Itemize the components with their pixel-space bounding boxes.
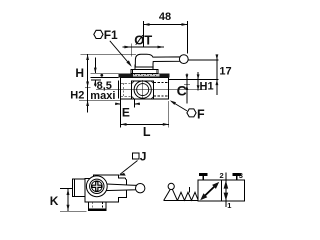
handle ball end [179, 55, 188, 64]
svg-text:3: 3 [239, 171, 243, 180]
svg-text:H2: H2 [70, 89, 84, 101]
node port vertical centerline [142, 80, 144, 99]
svg-text:ØT: ØT [134, 32, 152, 47]
lever actuator circle [168, 183, 174, 189]
dimension C line [186, 74, 188, 104]
blocked port T left box [202, 176, 204, 180]
dimension OT line [123, 46, 165, 48]
node C tick [184, 84, 190, 86]
wire extension OT [130, 44, 132, 57]
leader line J [120, 161, 138, 175]
right port thread dashed [154, 82, 169, 84]
svg-text:F: F [197, 107, 205, 121]
wire extension L right [168, 101, 170, 127]
handle hub and lever [135, 54, 181, 67]
node stub face inner line [74, 179, 76, 197]
dimension K [67, 189, 69, 212]
flow path diagonal arrow left box [203, 185, 217, 198]
node detent tick [188, 187, 190, 192]
dimension H H2 vertical [87, 54, 89, 112]
lever actuator legs [164, 189, 178, 200]
node actuator baseline [164, 199, 198, 201]
hexagon symbol F1 [94, 30, 103, 38]
dimension L [121, 123, 169, 125]
wire extension 48 left [143, 21, 145, 47]
node left port end dashed [122, 83, 124, 96]
dimension 8,5 arrow [94, 58, 96, 74]
svg-text:maxi: maxi [90, 90, 115, 102]
leader line F [172, 102, 188, 111]
dimension 17 reference bottom [169, 79, 219, 81]
node K bottom tick [60, 210, 87, 212]
svg-text:H: H [75, 66, 84, 80]
side lever bar [104, 184, 137, 191]
valve box right position [221, 180, 244, 201]
svg-text:J: J [140, 149, 147, 163]
port circle outer [134, 81, 151, 98]
svg-text:C: C [177, 82, 187, 98]
blocked port T right box port 3 [236, 176, 238, 180]
node face chamfer marks [132, 81, 154, 99]
side hub circles [86, 176, 107, 197]
dimension 17 line [216, 56, 218, 96]
svg-text:E: E [122, 105, 130, 119]
hexagon symbol F [187, 109, 196, 117]
port circle inner thread [137, 84, 149, 96]
dimension H1 line [197, 72, 199, 90]
dimension 17 reference top [188, 59, 218, 61]
valve box left position [198, 180, 222, 201]
node centerline side view [60, 188, 83, 190]
stem gland upper [135, 65, 153, 70]
spring return zigzag [178, 192, 198, 200]
dimension E [115, 103, 121, 105]
svg-text:1: 1 [227, 201, 231, 210]
wire handle-top reference line [80, 53, 136, 55]
wire extension E left L [120, 99, 122, 127]
side view body [85, 175, 127, 202]
square symbol J [133, 153, 139, 159]
node 8,5 tick [91, 79, 101, 81]
dimension 48 line [144, 24, 188, 26]
wire extension E right [134, 99, 136, 107]
leader line F1 [110, 41, 131, 65]
svg-text:L: L [143, 125, 151, 139]
node H2 tick [85, 86, 91, 88]
svg-text:2: 2 [220, 171, 224, 180]
phillips screw cross [92, 182, 102, 192]
side port stub left [72, 179, 85, 197]
knurled ring band [118, 73, 169, 77]
valve body front view [121, 77, 169, 99]
node centerline front view [96, 89, 207, 91]
wire body bottom left extension [79, 99, 121, 101]
bottom port stub [89, 202, 106, 210]
wire band lines left extension [90, 72, 118, 74]
svg-text:48: 48 [159, 11, 171, 23]
svg-text:K: K [50, 194, 59, 208]
svg-text:F1: F1 [104, 28, 118, 42]
wire extension 48 right [187, 21, 189, 54]
side lever ball [136, 184, 145, 193]
svg-text:H1: H1 [200, 81, 214, 93]
node band edge left [118, 81, 120, 99]
left port thread dashed [121, 82, 132, 84]
face square front port boss [132, 81, 154, 99]
flow path vertical arrow right box [225, 173, 227, 208]
stem flange lower [131, 69, 158, 73]
svg-text:17: 17 [219, 66, 231, 78]
node band dot [100, 74, 103, 77]
